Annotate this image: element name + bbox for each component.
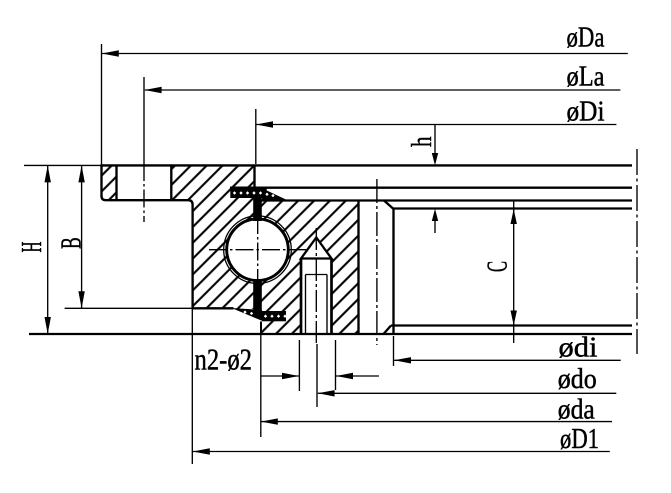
flange left edge [100,164,102,196]
svg-text:B: B [55,237,87,249]
flange mounting hole right wall [170,165,172,200]
tapped hole centerline [315,228,317,344]
outer ring right edge at top gap [253,165,255,190]
upper seal bar [230,188,266,198]
svg-text:h: h [406,136,438,147]
øLa arrow [145,87,162,93]
ball [227,219,289,281]
svg-text:øDi: øDi [567,95,605,127]
dimension øDa line [102,53,628,55]
dimension øDi extension line [255,109,257,164]
mounting hole centerline [376,179,378,345]
lower seal stem [253,279,262,312]
gap line y=188 [230,187,632,189]
axis centerline far right [636,149,638,354]
dimension B line [81,165,83,308]
top bore chamfer [384,201,393,209]
øDi arrow [256,121,273,127]
dimension ødo extension line [316,344,318,407]
svg-text:øDa: øDa [567,22,605,54]
svg-text:øda: øda [558,394,595,426]
øda arrow [261,418,278,424]
upper seal wedge [262,188,288,200]
n2-ø2 extension line right [335,340,337,390]
svg-text:ødo: ødo [558,363,597,395]
C upper arrow [511,209,517,224]
h upper arrow [432,153,438,165]
svg-text:C: C [481,261,513,272]
lower seal dots [243,310,286,317]
tapped hole right wall [330,259,333,335]
tapped hole left wall [300,259,303,335]
outer ring bottom face [65,307,193,309]
upper seal dots [233,191,275,197]
ødi arrow [394,357,411,363]
dimension øLa line [145,89,621,91]
raceway circle [224,216,292,284]
C lower arrow [511,311,517,326]
thread minor line left [305,275,307,335]
n2-ø2 extension line left [298,340,300,391]
outer ring (left, flanged) hatched section [102,165,292,309]
svg-text:n2-ø2: n2-ø2 [195,342,253,377]
flange mounting hole left wall [115,165,117,200]
mounting hole wall (right ring) [357,201,359,335]
inner ring (right of ball) hatched section [224,201,359,335]
dimension ødi line [394,359,621,361]
øD1 arrow [193,448,210,454]
n2-ø2 right arrow [336,373,353,379]
H upper arrow [45,165,51,182]
n2-ø2 left arrow [282,373,299,379]
upper seal stem [253,197,262,221]
B upper arrow [78,165,84,182]
h lower arrow [432,209,438,221]
dimension H line [47,165,49,334]
flange underside [102,196,193,309]
dimension øD1 extension line [191,309,193,464]
dimension ødo line [318,392,617,394]
svg-text:H: H [16,241,48,252]
ball horizontal centerline [209,249,306,251]
bore silhouette line y=208.5 [393,207,632,209]
thread minor line right [326,275,328,335]
dimension h upper leader [434,125,436,162]
bottom face line [29,333,632,335]
svg-text:øLa: øLa [567,61,605,93]
inner ring top face [262,199,633,201]
dimension øLa extension line [143,77,145,163]
svg-text:øD1: øD1 [560,423,599,455]
dimension øda line [261,421,612,423]
dimension øDi line [256,124,616,126]
flange hole centerline [143,163,145,222]
svg-text:ødi: ødi [559,332,598,364]
h lower leader [434,213,436,233]
inner ring left edge at bottom [260,322,262,335]
ødo arrow [318,390,335,396]
thread depth line [306,274,328,276]
dimension øDa extension line [101,44,103,164]
top face line [24,164,102,166]
n2-ø2 dimension line right part [336,375,379,377]
lower seal bar [262,311,286,321]
øDa arrow [102,50,119,56]
dimension ødi extension line [393,336,395,366]
bottom bore chamfer [384,326,392,335]
n2-ø2 dimension line left part [261,375,299,377]
lower seal wedge [232,308,263,321]
dimension øda extension line [260,334,262,437]
ball vertical centerline [257,216,259,285]
H lower arrow [45,317,51,334]
B lower arrow [78,291,84,308]
bore edge vertical [392,209,394,335]
drill cone [301,238,332,259]
dimension C line [513,201,515,343]
dimension øD1 line [193,451,610,453]
bore silhouette line y=325.5 [391,324,632,326]
